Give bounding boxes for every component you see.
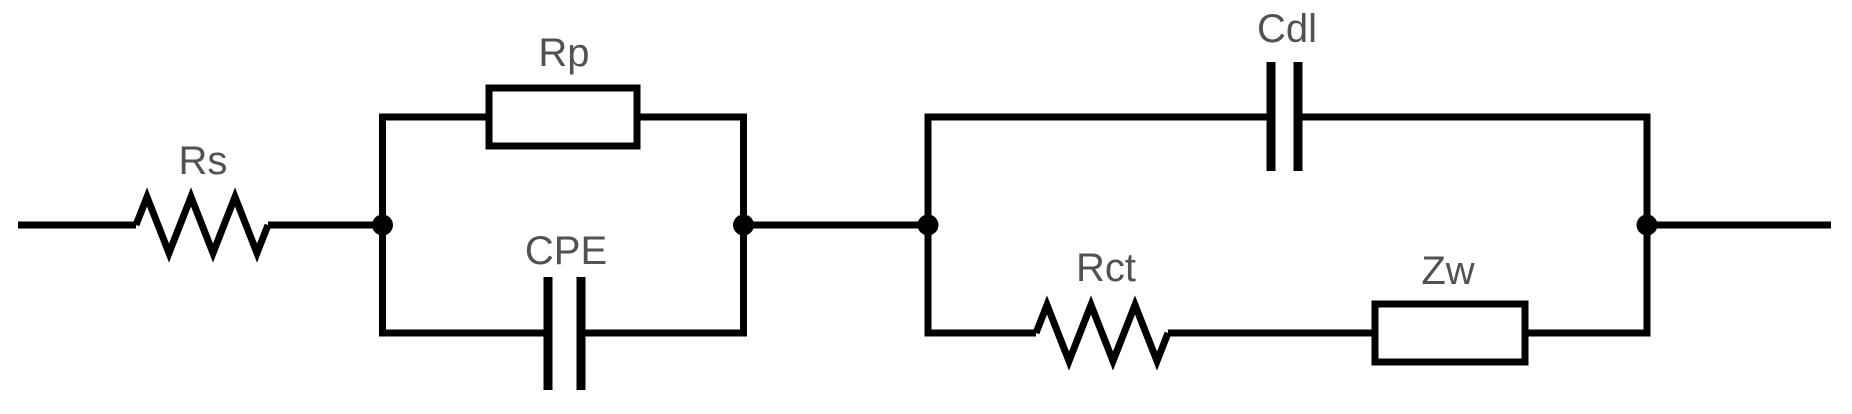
svg-text:Zw: Zw bbox=[1421, 249, 1474, 293]
resistor Rp bbox=[489, 88, 637, 146]
wire block1 top right segment bbox=[637, 114, 744, 121]
resistor Rs bbox=[136, 197, 268, 253]
capacitor Cdl plates bbox=[1271, 62, 1298, 171]
capacitor CPE plates bbox=[548, 277, 581, 390]
wire Rct to Zw bbox=[1168, 330, 1375, 337]
wire block1 bottom right segment bbox=[581, 330, 744, 337]
node C junction dot bbox=[918, 215, 939, 236]
wire block1 right vertical bbox=[740, 114, 747, 337]
node A junction dot bbox=[372, 215, 393, 236]
svg-text:Rs: Rs bbox=[179, 139, 228, 183]
wire block2 right vertical bbox=[1644, 114, 1651, 337]
wire block1 left vertical bbox=[379, 114, 386, 337]
wire block1 bottom left segment bbox=[383, 330, 549, 337]
node B junction dot bbox=[733, 215, 754, 236]
svg-text:Cdl: Cdl bbox=[1257, 7, 1317, 51]
wire block1 top left segment bbox=[383, 114, 490, 121]
svg-text:CPE: CPE bbox=[525, 229, 607, 273]
svg-text:Rct: Rct bbox=[1076, 246, 1136, 290]
wire output bbox=[1647, 222, 1831, 229]
wire block2 left vertical bbox=[925, 114, 932, 337]
resistor Rct bbox=[1036, 305, 1168, 361]
wire Rs to node A bbox=[268, 222, 383, 229]
wire block2 top left segment bbox=[928, 114, 1271, 121]
impedance Zw box bbox=[1375, 304, 1525, 362]
node D junction dot bbox=[1637, 215, 1658, 236]
wire block2 bottom right segment bbox=[1525, 330, 1647, 337]
wire input bbox=[18, 222, 136, 229]
svg-text:Rp: Rp bbox=[538, 31, 589, 75]
wire node A to node B bbox=[744, 222, 929, 229]
wire block2 top right segment bbox=[1298, 114, 1647, 121]
wire block2 bottom left segment bbox=[928, 330, 1036, 337]
